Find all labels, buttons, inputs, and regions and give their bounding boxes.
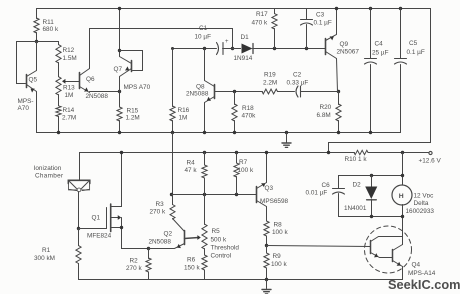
terminal +12.6 V [419,151,442,164]
svg-text:10 µF: 10 µF [195,34,212,41]
svg-text:16002933: 16002933 [406,208,435,215]
node Q8 collector junction [203,47,206,50]
svg-text:Q5: Q5 [29,77,38,84]
svg-text:MPS6598: MPS6598 [260,198,289,205]
svg-text:R1: R1 [42,247,51,254]
resistor R3 [150,195,185,232]
capacitor C5 [395,7,425,133]
svg-text:2N5088: 2N5088 [186,91,209,98]
ground bottom section [262,280,271,294]
svg-text:R20: R20 [320,104,332,111]
svg-text:100 k: 100 k [238,167,254,174]
svg-text:Q4: Q4 [412,262,421,269]
svg-text:R8: R8 [274,222,283,229]
resistor R19 [262,72,295,94]
ground top section [282,131,291,148]
transistor Q4 darlington [365,226,436,280]
svg-text:MFE824: MFE824 [87,233,112,240]
svg-text:R6: R6 [187,257,196,264]
node Q9 collector rail [335,7,338,10]
svg-text:R18: R18 [242,105,254,112]
node snubber top [401,174,404,177]
svg-text:R2: R2 [130,258,139,265]
transistor Q8 [186,49,215,133]
transistor Q3 [257,153,289,221]
svg-text:+: + [225,39,229,45]
node R14 rail [57,131,60,134]
wire node row [17,41,59,43]
resistor R16 [170,49,190,133]
svg-text:R13: R13 [63,85,75,92]
svg-text:Q2: Q2 [164,231,173,238]
resistor R8 [264,221,289,246]
wire ground rail mid [37,132,401,134]
svg-text:Ionization: Ionization [34,165,62,172]
node Q2 emitter [147,247,150,250]
resistor R14 [56,95,76,133]
wire Q5 base [17,42,26,84]
svg-text:D2: D2 [353,182,362,189]
resistor R6 [184,249,207,280]
node R15 top [118,90,121,93]
wire horn to Q4 [402,205,404,245]
resistor R10 [345,150,369,163]
node R9 rail [265,278,268,281]
svg-text:C6: C6 [322,182,331,189]
svg-text:MPS A70: MPS A70 [124,84,151,91]
svg-text:150 k: 150 k [184,265,200,272]
node Q4 base junction [265,244,268,247]
wire +12.6V feed line [80,153,429,181]
potentiometer R13 [56,63,75,100]
wire Q7 base loop [120,51,143,71]
transistor Q1 [87,204,122,240]
transistor Q5 [18,42,38,133]
resistor R1 [34,229,81,280]
svg-text:0.33 µF: 0.33 µF [287,80,309,87]
svg-text:Q8: Q8 [196,84,205,91]
svg-text:C2: C2 [293,72,302,79]
node Q7 top rail [118,7,121,10]
resistor R18 [232,92,256,133]
svg-text:2N5067: 2N5067 [337,49,360,56]
wire right edge [329,9,431,153]
capacitor C4 [365,7,389,133]
node R11 bottom [35,40,38,43]
svg-text:12 Vᴅᴄ: 12 Vᴅᴄ [414,193,435,200]
resistor R20 [317,92,342,133]
wire Q4 base line [267,246,371,247]
wire bottom rail [79,279,403,281]
node R18 rail [233,131,236,134]
svg-text:C4: C4 [375,41,384,48]
svg-text:100 k: 100 k [272,229,288,236]
wire R13 wiper [62,79,80,84]
capacitor C6 [306,176,403,217]
svg-text:1M: 1M [179,115,188,122]
node drop D1 line [231,47,234,50]
ionization chamber [34,165,90,192]
wire drop to D1 line [232,29,234,49]
resistor R2 [126,249,151,280]
svg-text:C3: C3 [316,12,325,19]
wire +12.6V top rail [37,8,431,10]
svg-text:R4: R4 [187,160,196,167]
svg-text:Q7: Q7 [114,66,123,73]
svg-text:0.01 µF: 0.01 µF [306,190,328,197]
svg-text:2.7M: 2.7M [62,115,76,122]
svg-text:MPS-: MPS- [18,98,34,105]
svg-text:2.2M: 2.2M [263,80,277,87]
svg-text:1.5M: 1.5M [63,55,77,62]
wire gate lead [79,228,107,230]
node Q1 drain top [120,151,123,154]
svg-text:R10 1 k: R10 1 k [345,156,368,163]
svg-text:R9: R9 [273,253,282,260]
wire Q8 base [215,91,263,93]
svg-text:Chamber: Chamber [35,173,64,180]
wire horn feed drop [402,153,404,185]
node R4 bottom [203,193,206,196]
svg-text:C5: C5 [409,40,418,47]
svg-text:MPS-A14: MPS-A14 [408,270,436,277]
svg-text:R11: R11 [43,19,55,26]
resistor R9 [264,246,288,280]
svg-text:Threshold: Threshold [211,245,240,252]
svg-text:270 k: 270 k [150,209,166,216]
transistor Q2 [149,231,201,249]
wire Q6 collector top [90,28,233,30]
watermark [388,277,460,292]
resistor R4 [185,151,208,195]
svg-text:D1: D1 [241,34,250,41]
svg-text:500 k: 500 k [211,237,227,244]
node R20 top [337,90,340,93]
node Q7 collector [118,49,121,52]
svg-text:H: H [399,193,404,200]
svg-text:300 kM: 300 kM [34,255,55,262]
svg-text:270 k: 270 k [126,265,142,272]
node horn feed [401,151,404,154]
svg-text:2N5088: 2N5088 [86,93,109,100]
svg-text:680 k: 680 k [43,26,59,33]
svg-text:0.1 µF: 0.1 µF [407,49,425,56]
resistor R15 [117,92,140,133]
resistor R12 [56,42,77,64]
node R7 bottom [235,193,238,196]
node R17 bottom [273,47,276,50]
horn H [392,185,434,215]
node Q8 emitter rail [203,131,206,134]
diode D2 [344,174,377,218]
capacitor C2 [287,72,339,98]
svg-text:470 k: 470 k [252,20,268,27]
wire Q1 drain [121,153,123,207]
svg-text:1M: 1M [65,92,74,99]
svg-text:R16: R16 [178,107,190,114]
resistor R11 [34,9,59,42]
svg-text:SeekIC.com: SeekIC.com [388,277,460,292]
svg-text:R19: R19 [264,72,276,79]
wire Q1 source [122,218,149,249]
svg-text:+12.6 V: +12.6 V [419,158,442,165]
svg-text:R12: R12 [63,47,75,54]
resistor R7 [234,151,254,195]
svg-text:1N914: 1N914 [234,55,253,62]
svg-text:R17: R17 [256,11,268,18]
svg-text:C1: C1 [199,25,208,32]
wire chamber to gate [78,192,80,229]
node snubber bottom [401,215,404,218]
svg-text:Q3: Q3 [265,185,274,192]
svg-text:Q1: Q1 [92,215,101,222]
wire Q6-Q7 emitter [90,91,120,93]
node R16 rail [171,131,174,134]
node Q1 substrate-source [120,226,123,229]
svg-text:6.8M: 6.8M [317,112,331,119]
node gate [77,227,80,230]
node Q3 emitter top [265,151,268,154]
svg-text:1.2M: 1.2M [126,115,140,122]
svg-text:1N4001: 1N4001 [344,205,367,212]
transistor Q9 [326,9,360,92]
potentiometer R5 threshold control [202,195,239,260]
svg-text:R15: R15 [127,108,139,115]
svg-text:Delta: Delta [414,200,429,207]
svg-text:R3: R3 [156,201,165,208]
wire node row bottom [172,194,257,196]
transistor Q6 [80,29,109,101]
node C1 left corner [171,47,174,50]
svg-text:470k: 470k [242,113,257,120]
diode D1 [234,34,326,62]
svg-text:Control: Control [211,253,232,260]
svg-text:Q9: Q9 [340,41,349,48]
node y142 drop [327,151,330,154]
transistor Q7 [114,9,151,92]
svg-text:25 µF: 25 µF [372,50,389,57]
node R20 rail [337,131,340,134]
svg-text:2N5088: 2N5088 [149,239,172,246]
svg-text:0.1 µF: 0.1 µF [314,20,332,27]
svg-text:47 k: 47 k [185,167,198,174]
svg-text:R5: R5 [212,228,221,235]
node R15 rail [118,131,121,134]
svg-text:Q6: Q6 [86,76,95,83]
node C3 bottom [305,47,308,50]
capacitor C3 [301,9,332,49]
resistor R17 [252,9,278,49]
svg-text:R14: R14 [63,107,75,114]
wire rail to node row [172,133,174,195]
node row left [170,193,173,196]
wire snubber bottom [339,216,403,218]
svg-text:100 k: 100 k [271,261,287,268]
svg-text:R7: R7 [239,159,248,166]
capacitor C1 [173,25,241,55]
node R18 top [233,90,236,93]
node C4 rail [369,131,372,134]
svg-text:A70: A70 [18,105,30,112]
